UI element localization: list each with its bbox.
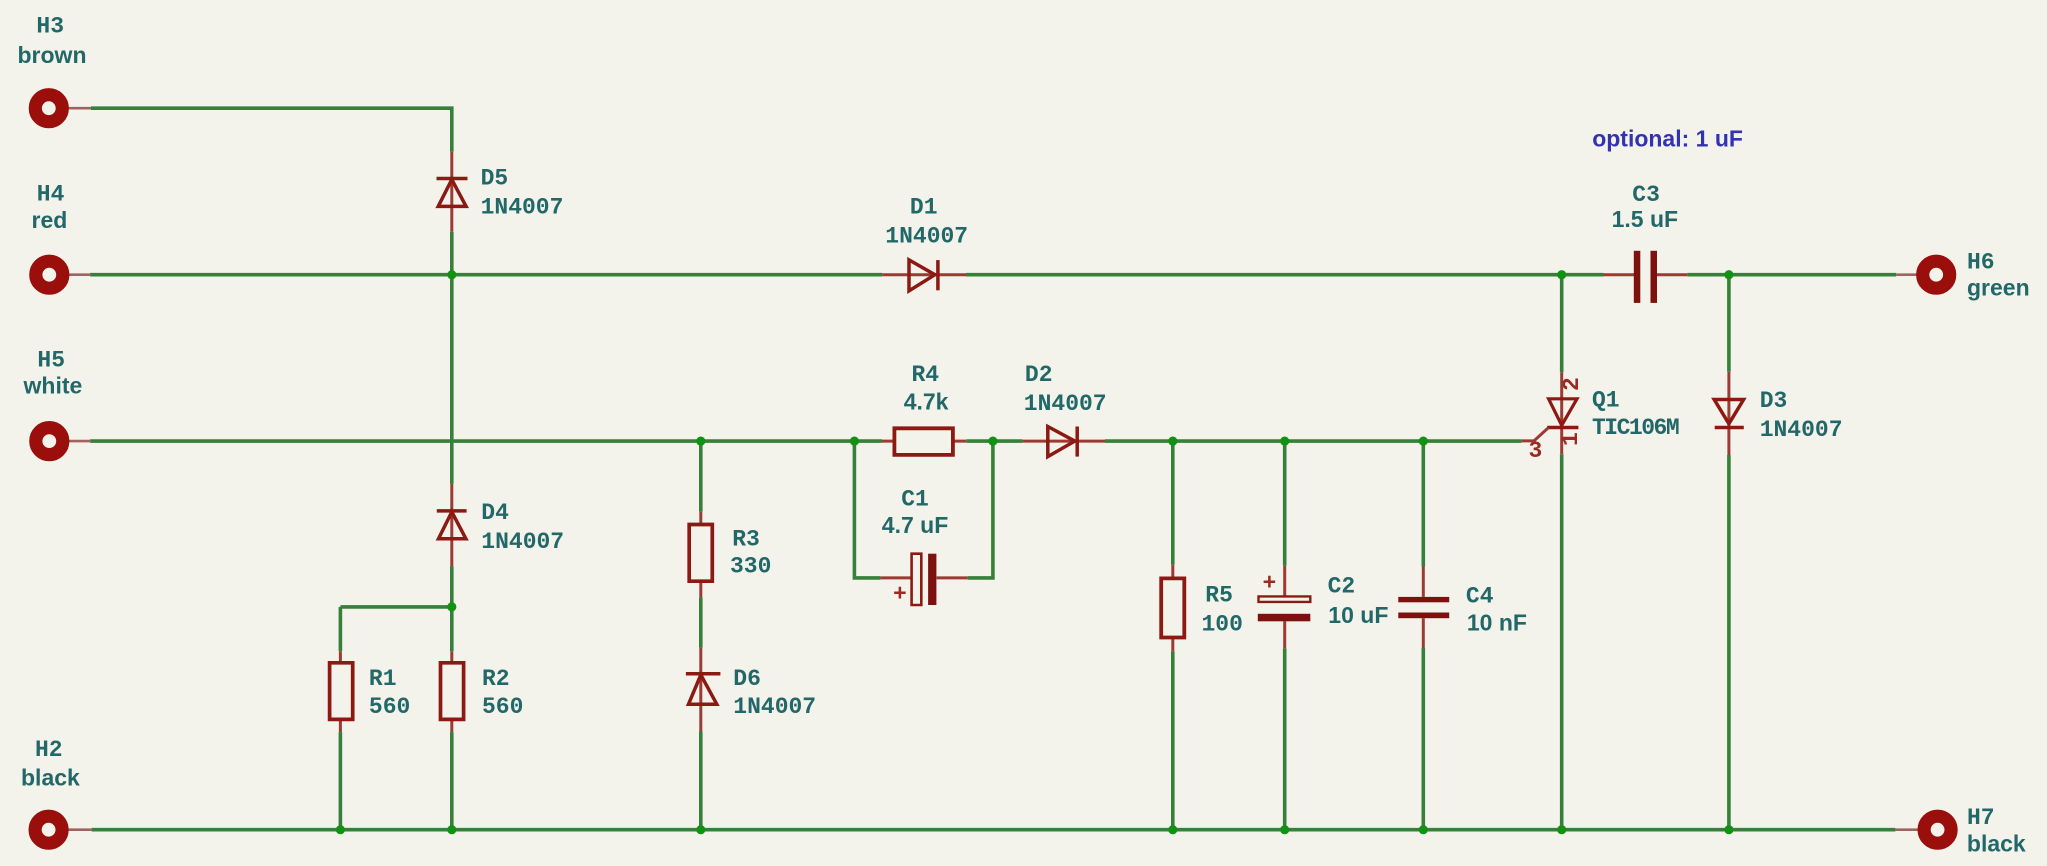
- svg-text:1N4007: 1N4007: [1760, 417, 1843, 443]
- diode D5 cathode bar: [437, 177, 468, 181]
- thyristor Q1 gate lead: [1522, 428, 1549, 441]
- junction H4/D5 column: [447, 270, 456, 279]
- svg-text:H4: H4: [37, 181, 65, 207]
- svg-text:R5: R5: [1205, 582, 1233, 608]
- wire D3 cathode pin to bottom row: [1727, 455, 1731, 830]
- capacitor C1 positive plate (hollow): [912, 554, 922, 605]
- capacitor C2 positive plate (hollow): [1259, 596, 1311, 602]
- junction H5/C1 left: [850, 437, 859, 446]
- junction bottom/D6: [696, 825, 705, 834]
- svg-text:Q1: Q1: [1592, 388, 1620, 414]
- svg-text:+: +: [893, 582, 907, 608]
- junction H5/R5 column: [1168, 437, 1177, 446]
- connector H4 pin stub: [67, 273, 91, 276]
- svg-text:optional: 1 uF: optional: 1 uF: [1592, 126, 1743, 152]
- svg-text:H3: H3: [36, 14, 64, 40]
- svg-text:D4: D4: [481, 500, 509, 526]
- diode D4 pin: [450, 484, 453, 566]
- capacitor C4 bottom plate: [1398, 613, 1449, 619]
- svg-text:D5: D5: [481, 166, 509, 192]
- svg-text:R2: R2: [482, 666, 510, 692]
- svg-text:+: +: [1263, 571, 1277, 597]
- junction bottom/R1: [336, 825, 345, 834]
- capacitor C2 pins: [1283, 566, 1286, 649]
- wire C1 right branch: H5 junction down and left to C1 - pin: [968, 441, 993, 578]
- svg-text:1: 1: [1558, 432, 1584, 446]
- wire H5 row left: H5 pad to R4 left pin: [90, 439, 882, 443]
- svg-text:red: red: [32, 207, 68, 233]
- svg-text:D3: D3: [1760, 388, 1788, 414]
- wire H5 junction down to C2 + pin: [1283, 441, 1287, 566]
- svg-text:TIC106M: TIC106M: [1592, 415, 1679, 441]
- wire D5 cathode to H4 row junction: [450, 232, 454, 275]
- junction bottom/C2: [1280, 825, 1289, 834]
- wire C4 bottom pin to bottom row: [1422, 648, 1426, 830]
- diode D2 triangle: [1048, 427, 1075, 457]
- wire R3 bottom pin to D6 anode: [699, 598, 703, 648]
- connector H2 pin stub: [67, 828, 92, 831]
- svg-text:D2: D2: [1025, 362, 1053, 388]
- thyristor Q1 triangle: [1549, 399, 1577, 426]
- wire R1 bottom pin to bottom row: [339, 732, 343, 830]
- resistor R1 pins: [339, 651, 342, 732]
- svg-text:brown: brown: [18, 42, 87, 68]
- connector H3 pin stub: [67, 107, 91, 110]
- wire C2 bottom pin to bottom row: [1283, 648, 1287, 829]
- wire R2 bottom pin to bottom row: [450, 732, 454, 830]
- junction H5/C1 right: [988, 437, 997, 446]
- diode D3 cathode bar: [1715, 426, 1744, 430]
- svg-text:1.5 uF: 1.5 uF: [1612, 206, 1678, 232]
- junction H4/D3 column: [1724, 270, 1733, 279]
- wire junction down to R2 top pin: [450, 607, 454, 651]
- svg-text:D6: D6: [733, 666, 761, 692]
- wire Q1 cathode pin to bottom row: [1560, 454, 1564, 830]
- thyristor Q1 cathode bar: [1547, 426, 1578, 430]
- diode D1 pin: [882, 273, 966, 276]
- capacitor C2 negative plate (solid): [1258, 614, 1311, 622]
- junction bottom/C4: [1419, 825, 1428, 834]
- diode D6 cathode bar: [686, 672, 721, 676]
- svg-text:1N4007: 1N4007: [481, 194, 564, 220]
- thyristor Q1 anode/cathode pin line: [1560, 372, 1563, 454]
- junction H5/C4 column: [1419, 437, 1428, 446]
- junction bottom/Q1: [1557, 825, 1566, 834]
- resistor R2 body: [441, 663, 464, 720]
- svg-text:560: 560: [369, 694, 410, 720]
- svg-text:4.7k: 4.7k: [904, 389, 949, 415]
- resistor R2 pins: [450, 651, 453, 732]
- svg-text:1N4007: 1N4007: [885, 224, 968, 250]
- svg-text:3: 3: [1529, 438, 1543, 464]
- resistor R4 body: [894, 428, 953, 455]
- diode D6 pin: [699, 648, 702, 732]
- wire R5 bottom pin to bottom row: [1171, 651, 1175, 830]
- connector pad H6: [1923, 261, 1950, 288]
- svg-text:H6: H6: [1967, 249, 1995, 275]
- wire bottom row: H2 pad to H7 pad: [92, 828, 1896, 832]
- connector pad H7: [1924, 816, 1951, 843]
- resistor R4 pins: [882, 440, 966, 443]
- diode D3 triangle: [1714, 400, 1743, 424]
- wire H5 row: R4 right pin to D2 anode: [966, 439, 1022, 443]
- diode D3 pin: [1727, 372, 1730, 455]
- wire H5 junction down to R5 top pin: [1171, 441, 1175, 565]
- wire H3 row from pad H3 to corner, down to D5: [91, 108, 452, 152]
- diode D4 cathode bar: [437, 509, 467, 513]
- diode D6 triangle: [689, 675, 717, 704]
- svg-text:R1: R1: [369, 666, 397, 692]
- resistor R3 body: [689, 525, 712, 582]
- capacitor C1 negative plate (solid): [928, 554, 936, 605]
- wire D6 cathode to bottom row: [699, 732, 703, 830]
- diode D1 cathode bar: [936, 260, 940, 290]
- junction H5/R3 column: [696, 437, 705, 446]
- wire H4 row mid: D1 cathode to C3 left pin: [966, 273, 1604, 277]
- svg-text:D1: D1: [910, 195, 938, 221]
- connector H7 pin stub: [1895, 828, 1920, 831]
- svg-text:R3: R3: [732, 527, 760, 553]
- connector pad H5: [36, 428, 63, 455]
- capacitor C3 pins: [1604, 273, 1688, 276]
- junction bottom/R5: [1168, 825, 1177, 834]
- svg-text:white: white: [23, 373, 83, 399]
- capacitor C3 left plate: [1634, 251, 1641, 303]
- resistor R5 pins: [1171, 565, 1174, 652]
- connector H5 pin stub: [67, 440, 91, 443]
- svg-text:black: black: [1967, 831, 2026, 857]
- diode D5 pin: [450, 152, 453, 232]
- diode D2 pin: [1022, 440, 1105, 443]
- svg-text:100: 100: [1202, 612, 1243, 638]
- svg-text:C1: C1: [901, 486, 929, 512]
- svg-text:black: black: [21, 765, 80, 791]
- wire H5 junction down to R3 top pin: [699, 441, 703, 512]
- svg-text:C3: C3: [1632, 182, 1660, 208]
- svg-text:1N4007: 1N4007: [733, 694, 816, 720]
- wire C1 left branch: H5 junction down and right to C1 + pin: [854, 441, 880, 578]
- svg-text:H7: H7: [1967, 805, 1995, 831]
- connector H6 pin stub: [1896, 273, 1918, 276]
- svg-text:H2: H2: [35, 737, 63, 763]
- wire H5 junction down to C4 top pin: [1422, 441, 1426, 566]
- wire H4 row right: C3 right pin to H6 pad: [1687, 273, 1896, 277]
- connector pad H2: [35, 816, 62, 843]
- capacitor C4 pins: [1422, 567, 1425, 649]
- svg-text:1N4007: 1N4007: [481, 529, 564, 555]
- svg-text:C2: C2: [1328, 574, 1356, 600]
- wire H4 row left: H4 pad to D1 anode: [90, 273, 882, 277]
- svg-text:H5: H5: [37, 348, 65, 374]
- wire R1 branch horizontal at node junction: [340, 605, 451, 609]
- resistor R1 body: [330, 663, 353, 720]
- diode D5 triangle: [438, 180, 466, 207]
- diode D2 cathode bar: [1075, 427, 1079, 457]
- capacitor C3 right plate: [1651, 251, 1658, 303]
- diode D4 triangle: [439, 512, 466, 539]
- wire R1 branch down to R1 top pin: [339, 607, 343, 651]
- svg-text:C4: C4: [1466, 584, 1494, 610]
- svg-text:4.7 uF: 4.7 uF: [882, 512, 948, 538]
- wire H5 row right: D2 cathode to Q1 gate pin: [1105, 439, 1522, 443]
- junction H5/C2 column: [1280, 437, 1289, 446]
- junction H4/Q1 column: [1557, 270, 1566, 279]
- junction bottom/D3: [1724, 825, 1733, 834]
- wire H4 junction down to Q1 anode pin: [1560, 275, 1564, 373]
- diode D1 triangle: [909, 260, 935, 291]
- resistor R5 body: [1161, 578, 1184, 637]
- junction R1/R2 node: [447, 602, 456, 611]
- svg-text:10 nF: 10 nF: [1467, 609, 1527, 635]
- wire D4 cathode to R1/R2 junction: [450, 566, 454, 607]
- wire H4 junction down through H5 row to D4 anode: [450, 275, 454, 484]
- capacitor C1 pins: [880, 576, 967, 579]
- resistor R3 pins: [699, 512, 702, 598]
- svg-text:330: 330: [730, 554, 771, 580]
- svg-text:10 uF: 10 uF: [1328, 602, 1388, 628]
- connector pad H4: [36, 261, 63, 288]
- svg-text:2: 2: [1559, 377, 1585, 391]
- wire H4 junction down to D3 anode pin: [1727, 275, 1731, 372]
- svg-text:560: 560: [482, 694, 523, 720]
- capacitor C4 top plate: [1398, 597, 1449, 602]
- svg-text:R4: R4: [912, 362, 940, 388]
- connector pad H3: [35, 95, 62, 122]
- svg-text:green: green: [1967, 275, 2030, 301]
- svg-text:1N4007: 1N4007: [1024, 391, 1107, 417]
- junction bottom/R2: [447, 825, 456, 834]
